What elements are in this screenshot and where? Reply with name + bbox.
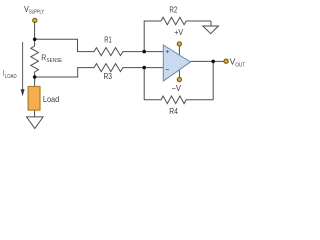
svg-text:R3: R3 xyxy=(104,72,113,81)
svg-text:SUPPLY: SUPPLY xyxy=(29,10,44,16)
svg-text:−V: −V xyxy=(172,84,182,93)
svg-text:Load: Load xyxy=(43,94,60,104)
svg-text:+V: +V xyxy=(174,28,183,37)
svg-text:R4: R4 xyxy=(169,107,178,116)
svg-text:LOAD: LOAD xyxy=(5,74,17,80)
svg-text:SENSE: SENSE xyxy=(47,58,63,64)
svg-text:R2: R2 xyxy=(169,6,177,15)
svg-text:R1: R1 xyxy=(104,36,112,45)
svg-text:OUT: OUT xyxy=(235,62,245,68)
